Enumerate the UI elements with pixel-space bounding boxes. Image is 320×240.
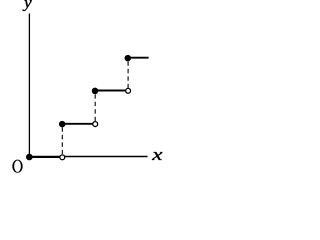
step segment 1 (on x-axis) xyxy=(29,156,60,158)
open endpoint circle on x-axis xyxy=(60,155,65,160)
y-axis xyxy=(28,14,30,157)
open endpoint circle step 2 xyxy=(93,122,98,127)
step segment 4 xyxy=(128,57,149,59)
closed endpoint dot at origin xyxy=(26,154,33,161)
step segment 2 xyxy=(62,123,92,125)
open endpoint circle step 3 xyxy=(126,88,131,93)
dashed riser at x=62.3 xyxy=(61,127,63,154)
closed endpoint dot step 3 xyxy=(92,88,99,95)
svg-text:y: y xyxy=(22,0,33,11)
x-axis xyxy=(29,156,147,158)
closed endpoint dot step 2 xyxy=(59,121,65,128)
dashed riser at x=128.1 xyxy=(127,61,129,88)
closed endpoint dot step 4 xyxy=(125,55,132,62)
svg-text:x: x xyxy=(151,145,164,164)
dashed riser at x=95.2 xyxy=(94,94,96,121)
step segment 3 xyxy=(95,90,125,92)
origin label O xyxy=(12,160,22,173)
